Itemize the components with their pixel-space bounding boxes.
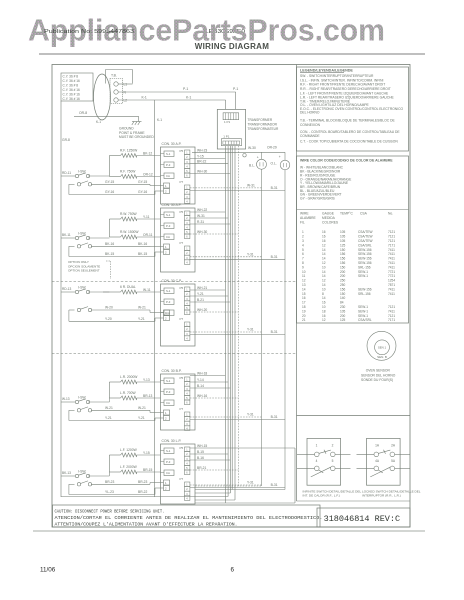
svg-text:12: 12 xyxy=(302,279,306,283)
svg-text:7411: 7411 xyxy=(388,252,395,256)
G1 output wires xyxy=(190,157,226,159)
svg-text:W-20: W-20 xyxy=(105,306,113,310)
svg-text:7411: 7411 xyxy=(388,292,395,296)
svg-text:11/06: 11/06 xyxy=(40,567,56,574)
G3 lamp circuit wires xyxy=(190,331,262,333)
svg-text:Y-21: Y-21 xyxy=(138,416,145,420)
svg-text:SEW-1: SEW-1 xyxy=(358,305,368,309)
svg-text:14: 14 xyxy=(322,270,326,274)
svg-text:7: 7 xyxy=(302,257,304,261)
svg-text:Y-21: Y-21 xyxy=(138,317,145,321)
section divider xyxy=(52,281,297,283)
svg-text:SONDE DU FOUR(S): SONDE DU FOUR(S) xyxy=(361,378,393,382)
svg-text:P-3: P-3 xyxy=(166,224,171,228)
svg-text:W-11: W-11 xyxy=(143,288,151,292)
svg-text:10: 10 xyxy=(302,270,306,274)
svg-text:84: 84 xyxy=(340,301,344,305)
svg-text:SEW-156: SEW-156 xyxy=(358,261,372,265)
svg-text:6 R. DUAL: 6 R. DUAL xyxy=(120,285,136,289)
svg-text:SEW-1: SEW-1 xyxy=(358,270,368,274)
G5 output wires xyxy=(190,447,295,449)
svg-text:7121: 7121 xyxy=(388,235,395,239)
svg-text:105: 105 xyxy=(340,239,346,243)
svg-text:C.Y. 36 # 8: C.Y. 36 # 8 xyxy=(63,84,79,88)
svg-text:GY-16: GY-16 xyxy=(138,190,147,194)
svg-text:18: 18 xyxy=(302,305,306,309)
svg-text:+: + xyxy=(279,155,281,159)
svg-text:105: 105 xyxy=(340,309,346,313)
G2 aux pins xyxy=(164,244,170,249)
left feed bus xyxy=(60,101,62,497)
svg-text:7121: 7121 xyxy=(388,230,395,234)
svg-text:CA: CA xyxy=(166,235,170,239)
svg-text:SEW-156: SEW-156 xyxy=(358,248,372,252)
svg-text:S-1: S-1 xyxy=(166,152,171,156)
svg-text:SEW-1: SEW-1 xyxy=(358,314,368,318)
svg-text:P5: P5 xyxy=(180,286,184,290)
svg-text:R.W. 1500W: R.W. 1500W xyxy=(120,230,139,234)
svg-text:BK-12: BK-12 xyxy=(143,151,152,155)
svg-text:B-14: B-14 xyxy=(197,384,204,388)
svg-text:1 P1: 1 P1 xyxy=(223,134,230,138)
wire L1 loop xyxy=(105,70,107,84)
G4 left pins xyxy=(164,378,174,384)
svg-text:S-1: S-1 xyxy=(166,449,171,453)
svg-text:W-13: W-13 xyxy=(62,397,70,401)
G2 lamp circuit wires xyxy=(190,256,262,258)
svg-text:200: 200 xyxy=(340,314,346,318)
terminal N xyxy=(114,90,118,94)
legend box xyxy=(297,67,409,151)
G5 lamp circuit wires xyxy=(190,484,262,486)
section divider 2 xyxy=(52,353,297,355)
table divider xyxy=(297,209,409,211)
svg-text:K-1: K-1 xyxy=(186,95,191,99)
element feed wire xyxy=(108,455,110,472)
svg-text:R.F. 1250W: R.F. 1250W xyxy=(120,148,138,152)
svg-text:WH-23: WH-23 xyxy=(197,148,207,152)
svg-text:INT. DE CALOR (R.F., L.F.): INT. DE CALOR (R.F., L.F.) xyxy=(303,494,340,498)
lamp wire xyxy=(192,151,285,153)
svg-text:16: 16 xyxy=(322,314,326,318)
svg-text:OR-8: OR-8 xyxy=(79,111,87,115)
svg-text:L.R. 700W: L.R. 700W xyxy=(120,391,136,395)
svg-text:OPTION SEULEMENT: OPTION SEULEMENT xyxy=(68,269,100,273)
svg-text:LEGEND/LEYENDA/LEGENDE: LEGEND/LEYENDA/LEGENDE xyxy=(300,69,353,73)
sheet border xyxy=(52,65,410,528)
svg-text:Y-11: Y-11 xyxy=(143,215,150,219)
G3 aux pins xyxy=(164,310,170,315)
svg-text:WIRING DIAGRAM: WIRING DIAGRAM xyxy=(195,42,269,51)
svg-text:WH-18: WH-18 xyxy=(197,372,207,376)
svg-text:OR-12: OR-12 xyxy=(143,172,153,176)
svg-text:200: 200 xyxy=(340,274,346,278)
switch feed wires xyxy=(61,237,75,239)
svg-text:L2: L2 xyxy=(124,99,128,103)
svg-text:150: 150 xyxy=(340,248,346,252)
svg-text:R-31: R-31 xyxy=(197,220,204,224)
G1 lamp circuit wires xyxy=(190,187,262,189)
wire spec box xyxy=(61,73,93,101)
dashed bus wire xyxy=(237,146,239,486)
svg-text:11: 11 xyxy=(302,274,306,278)
ground wire xyxy=(74,115,139,117)
svg-text:BR-21: BR-21 xyxy=(197,466,207,470)
svg-text:P7: P7 xyxy=(180,241,184,245)
svg-text:16: 16 xyxy=(302,296,306,300)
svg-text:Y-31: Y-31 xyxy=(247,481,254,485)
svg-text:BR-13: BR-13 xyxy=(143,394,153,398)
infinite switch I-SW xyxy=(75,286,91,312)
svg-text:TRANSFORMADOR: TRANSFORMADOR xyxy=(248,123,278,127)
svg-text:BR-23: BR-23 xyxy=(138,480,148,484)
svg-text:1: 1 xyxy=(302,230,304,234)
infinite switch I-SW xyxy=(75,470,91,486)
svg-text:CSA: CSA xyxy=(360,212,368,216)
EOC bus wires xyxy=(224,146,226,503)
svg-text:150: 150 xyxy=(340,292,346,296)
svg-text:14: 14 xyxy=(322,248,326,252)
svg-text:GY-15: GY-15 xyxy=(105,180,114,184)
svg-text:BK-15: BK-15 xyxy=(138,252,147,256)
svg-text:WIRE: WIRE xyxy=(300,212,309,216)
svg-text:+: + xyxy=(257,156,259,160)
svg-text:6: 6 xyxy=(302,252,304,256)
svg-text:8: 8 xyxy=(302,261,304,265)
svg-text:Y-31: Y-31 xyxy=(247,328,254,332)
svg-text:SEW-156: SEW-156 xyxy=(358,257,372,261)
svg-text:105: 105 xyxy=(340,230,346,234)
svg-text:B-31: B-31 xyxy=(271,255,278,259)
svg-text:SRL-156: SRL-156 xyxy=(358,265,371,269)
G5 left pins xyxy=(164,448,174,454)
svg-text:K-1: K-1 xyxy=(142,95,147,99)
svg-text:7411: 7411 xyxy=(388,265,395,269)
svg-text:INTERRUPTOR (R.R., L.R.): INTERRUPTOR (R.R., L.R.) xyxy=(362,494,401,498)
svg-text:20: 20 xyxy=(302,314,306,318)
svg-text:8: 8 xyxy=(322,292,324,296)
footer rule xyxy=(33,530,425,532)
lamp 2 O.L. xyxy=(284,152,286,160)
svg-text:L.F. 1200W: L.F. 1200W xyxy=(120,448,138,452)
svg-text:SRL-156: SRL-156 xyxy=(358,292,371,296)
svg-text:BR-15: BR-15 xyxy=(143,468,153,472)
svg-text:I-SW: I-SW xyxy=(78,170,86,174)
G1 left pins xyxy=(164,151,174,157)
svg-text:1 P1: 1 P1 xyxy=(224,120,231,124)
svg-text:BR-22: BR-22 xyxy=(138,490,148,494)
svg-text:B-31: B-31 xyxy=(271,415,278,419)
svg-text:P5: P5 xyxy=(180,446,184,450)
svg-text:CA: CA xyxy=(166,471,170,475)
svg-text:L.R. 2000W: L.R. 2000W xyxy=(120,375,138,379)
svg-text:C.Y. 36 # 16: C.Y. 36 # 16 xyxy=(63,97,81,101)
svg-text:2: 2 xyxy=(332,444,334,448)
svg-text:BR-23: BR-23 xyxy=(105,480,115,484)
wire along panel edge xyxy=(294,448,296,503)
svg-text:P-3: P-3 xyxy=(166,300,171,304)
G4 output wires xyxy=(190,375,226,377)
G5 aux pins xyxy=(164,480,170,485)
infinite switch I-SW xyxy=(75,232,91,249)
svg-text:R.F. 750W: R.F. 750W xyxy=(120,169,136,173)
svg-text:250: 250 xyxy=(340,279,346,283)
svg-text:T.B.: T.B. xyxy=(111,74,117,78)
svg-text:WIRE COLOR CODE/CODIGO DE COLO: WIRE COLOR CODE/CODIGO DE COLOR DE ALAMB… xyxy=(300,159,393,163)
svg-text:Y-21: Y-21 xyxy=(197,292,204,296)
svg-text:CON. 30 A.P.: CON. 30 A.P. xyxy=(162,203,182,207)
svg-text:7411: 7411 xyxy=(388,248,395,252)
svg-text:BK-16: BK-16 xyxy=(105,242,114,246)
svg-text:I-SW: I-SW xyxy=(78,396,86,400)
svg-text:OVEN SENSOR: OVEN SENSOR xyxy=(366,369,391,373)
svg-text:L.F. 2000W: L.F. 2000W xyxy=(120,465,138,469)
svg-text:OR-11: OR-11 xyxy=(143,233,153,237)
wire N to bus P-1 xyxy=(118,91,236,93)
lower panel divider xyxy=(297,415,411,417)
bottom bus runs xyxy=(195,485,262,487)
svg-text:7121: 7121 xyxy=(388,305,395,309)
svg-text:WH-15: WH-15 xyxy=(197,444,207,448)
svg-text:WH-30: WH-30 xyxy=(197,169,207,173)
svg-text:OR-29: OR-29 xyxy=(267,146,277,150)
svg-text:RD-11: RD-11 xyxy=(62,171,71,175)
svg-text:Y-15: Y-15 xyxy=(143,451,150,455)
svg-text:Y-31: Y-31 xyxy=(247,252,254,256)
svg-text:SEN 1: SEN 1 xyxy=(378,346,387,350)
EOC top connector J1 xyxy=(223,113,239,120)
svg-text:7171: 7171 xyxy=(388,318,395,322)
svg-text:14: 14 xyxy=(322,283,326,287)
caution box xyxy=(53,505,321,527)
element feed wire xyxy=(108,219,110,237)
ground symbol xyxy=(138,116,140,121)
infinite switch I-SW xyxy=(75,396,91,412)
switch feed wires xyxy=(61,291,75,293)
svg-text:W-31: W-31 xyxy=(247,183,255,187)
svg-text:7121: 7121 xyxy=(388,239,395,243)
infinite switch I-SW xyxy=(75,170,91,187)
switch feed wires xyxy=(61,401,75,403)
svg-text:6: 6 xyxy=(231,567,235,574)
terminal L2 xyxy=(114,98,118,102)
svg-text:B-16: B-16 xyxy=(197,456,204,460)
svg-text:Y-21: Y-21 xyxy=(105,416,112,420)
svg-text:CA: CA xyxy=(166,174,170,178)
svg-text:12: 12 xyxy=(322,279,326,283)
svg-text:16: 16 xyxy=(322,235,326,239)
svg-text:P7: P7 xyxy=(180,317,184,321)
svg-text:S-1: S-1 xyxy=(166,213,171,217)
svg-text:R.W. 750W: R.W. 750W xyxy=(120,212,138,216)
G4 lamp circuit wires xyxy=(190,416,262,418)
svg-text:W-30: W-30 xyxy=(248,146,256,150)
svg-text:B-31: B-31 xyxy=(271,186,278,190)
svg-text:Y-15: Y-15 xyxy=(197,154,204,158)
svg-text:7121: 7121 xyxy=(388,314,395,318)
svg-text:MUST BE GROUNDED: MUST BE GROUNDED xyxy=(119,135,154,139)
svg-text:BR-22: BR-22 xyxy=(197,160,207,164)
svg-text:CAUTION: DISCONNECT POWER BEFO: CAUTION: DISCONNECT POWER BEFORE SERVICI… xyxy=(55,509,165,515)
svg-text:R.F. - RIGHT FRONT/FRENTE DE: R.F. - RIGHT FRONT/FRENTE DERECHO/AVANT … xyxy=(300,83,385,87)
svg-text:7721: 7721 xyxy=(388,274,395,278)
svg-text:1254: 1254 xyxy=(388,279,395,283)
svg-text:P-3: P-3 xyxy=(166,163,171,167)
svg-text:WH-21: WH-21 xyxy=(197,286,207,290)
svg-text:CSA/TEW: CSA/TEW xyxy=(358,230,373,234)
wire stub to EOC pin xyxy=(225,100,227,109)
oven sensor RTD xyxy=(367,331,396,360)
svg-text:B-15: B-15 xyxy=(197,450,204,454)
svg-text:P7: P7 xyxy=(180,407,184,411)
svg-text:WH-16: WH-16 xyxy=(197,394,207,398)
switch feed wires xyxy=(61,475,75,477)
svg-text:P5: P5 xyxy=(180,210,184,214)
svg-text:140: 140 xyxy=(340,296,346,300)
oven lamp B.L. xyxy=(261,152,263,159)
svg-text:12: 12 xyxy=(322,261,326,265)
svg-text:Y-20: Y-20 xyxy=(105,317,112,321)
svg-text:5: 5 xyxy=(332,459,334,463)
svg-text:3: 3 xyxy=(302,239,304,243)
svg-text:P-1: P-1 xyxy=(233,87,238,91)
svg-text:16: 16 xyxy=(322,230,326,234)
svg-text:K-1: K-1 xyxy=(157,118,162,122)
svg-text:R.R. - RIGHT REAR/TRASERO DE: R.R. - RIGHT REAR/TRASERO DERECHO/ARRIER… xyxy=(300,87,391,91)
svg-text:4: 4 xyxy=(302,243,304,247)
switch feed wires xyxy=(61,175,75,177)
svg-text:P-1: P-1 xyxy=(183,87,188,91)
svg-text:C.Y. 36 # 16: C.Y. 36 # 16 xyxy=(63,88,81,92)
svg-text:W-21: W-21 xyxy=(105,406,113,410)
svg-text:WH-22: WH-22 xyxy=(197,208,207,212)
svg-text:105: 105 xyxy=(340,235,346,239)
svg-text:SEW-156: SEW-156 xyxy=(358,252,372,256)
svg-text:150: 150 xyxy=(340,265,346,269)
svg-text:14: 14 xyxy=(322,274,326,278)
svg-text:10: 10 xyxy=(322,265,326,269)
svg-text:7411: 7411 xyxy=(388,257,395,261)
svg-text:10: 10 xyxy=(322,287,326,291)
svg-text:SENSOR DEL HORNO: SENSOR DEL HORNO xyxy=(361,373,396,377)
svg-text:5: 5 xyxy=(302,248,304,252)
G1 aux pins xyxy=(164,183,170,188)
svg-text:No.: No. xyxy=(388,212,393,216)
svg-text:156: 156 xyxy=(340,261,346,265)
svg-text:BK-11: BK-11 xyxy=(62,233,71,237)
svg-text:19: 19 xyxy=(302,309,306,313)
svg-text:P5: P5 xyxy=(180,376,184,380)
G3 left pins xyxy=(164,288,174,294)
svg-text:P7: P7 xyxy=(180,477,184,481)
svg-text:14: 14 xyxy=(322,252,326,256)
svg-text:13: 13 xyxy=(302,283,306,287)
svg-text:156: 156 xyxy=(340,257,346,261)
svg-text:C.T. - COOK TOP/CUBIERTA DE CO: C.T. - COOK TOP/CUBIERTA DE COCCION/TABL… xyxy=(300,140,398,144)
svg-text:BK-16: BK-16 xyxy=(138,242,147,246)
svg-text:1: 1 xyxy=(316,444,318,448)
svg-text:16: 16 xyxy=(322,239,326,243)
G2 output wires xyxy=(190,211,226,213)
svg-text:GR-8: GR-8 xyxy=(62,138,70,142)
svg-text:SEN. B: SEN. B xyxy=(377,355,387,359)
svg-text:W-31: W-31 xyxy=(197,214,205,218)
svg-text:WH-30: WH-30 xyxy=(197,230,207,234)
svg-text:CSA/TEW: CSA/TEW xyxy=(358,239,373,243)
svg-text:17: 17 xyxy=(302,301,306,305)
svg-text:GY-15: GY-15 xyxy=(138,180,147,184)
panel divider xyxy=(296,65,298,502)
svg-text:K-1: K-1 xyxy=(96,120,101,124)
svg-text:DEL HORNO: DEL HORNO xyxy=(300,110,320,114)
svg-text:230: 230 xyxy=(340,305,346,309)
EOC electronic oven control U1 xyxy=(217,109,245,149)
header rule xyxy=(39,53,425,55)
svg-text:18: 18 xyxy=(322,309,326,313)
svg-text:B-31: B-31 xyxy=(271,483,278,487)
svg-text:CON. 30 L.P.: CON. 30 L.P. xyxy=(162,439,182,443)
svg-text:S-1: S-1 xyxy=(166,289,171,293)
wire color code box xyxy=(297,156,409,323)
svg-text:TRANSFORMATEUR: TRANSFORMATEUR xyxy=(248,127,279,131)
svg-text:GY-16: GY-16 xyxy=(105,190,114,194)
svg-text:12: 12 xyxy=(322,318,326,322)
svg-text:O.L.: O.L. xyxy=(271,162,277,166)
svg-text:Publication No: 5995447863: Publication No: 5995447863 xyxy=(44,29,134,35)
svg-text:Y-14: Y-14 xyxy=(197,378,204,382)
svg-text:RD-13: RD-13 xyxy=(62,287,71,291)
svg-text:250: 250 xyxy=(340,283,346,287)
ground circle G xyxy=(243,154,246,157)
lamp drops xyxy=(261,169,263,486)
svg-text:I-SW: I-SW xyxy=(78,470,86,474)
svg-text:CON. 30 B.P.: CON. 30 B.P. xyxy=(162,369,182,373)
svg-text:I-SW: I-SW xyxy=(78,286,86,290)
svg-text:21: 21 xyxy=(302,318,306,322)
svg-text:SEW-1: SEW-1 xyxy=(358,274,368,278)
svg-text:COLORES: COLORES xyxy=(322,221,339,225)
svg-text:P-3: P-3 xyxy=(166,460,171,464)
switch detail figure at 366.5 xyxy=(367,438,401,485)
svg-text:Y-13: Y-13 xyxy=(143,378,150,382)
svg-text:125: 125 xyxy=(340,243,346,247)
svg-text:125: 125 xyxy=(340,318,346,322)
G3 output wires xyxy=(190,289,226,291)
svg-text:GY - GRAY/GRIS/GRIS: GY - GRAY/GRIS/GRIS xyxy=(300,197,335,201)
svg-text:200: 200 xyxy=(340,270,346,274)
svg-text:7411: 7411 xyxy=(388,287,395,291)
svg-text:CSA/SRL: CSA/SRL xyxy=(358,318,372,322)
switch panel bottom xyxy=(297,500,411,502)
svg-text:16: 16 xyxy=(322,301,326,305)
svg-text:14: 14 xyxy=(322,257,326,261)
svg-text:14: 14 xyxy=(322,296,326,300)
svg-text:B-31: B-31 xyxy=(271,330,278,334)
svg-text:FIL: FIL xyxy=(300,221,305,225)
svg-text:I-SW: I-SW xyxy=(78,232,86,236)
svg-text:2: 2 xyxy=(302,235,304,239)
svg-text:CSA/TEW: CSA/TEW xyxy=(358,235,373,239)
svg-text:B-21: B-21 xyxy=(197,298,204,302)
svg-text:WH-20: WH-20 xyxy=(197,308,207,312)
svg-text:P-3: P-3 xyxy=(166,390,171,394)
svg-text:MEDIDA: MEDIDA xyxy=(322,216,336,220)
svg-text:S-1: S-1 xyxy=(166,379,171,383)
element feed wire xyxy=(108,382,110,398)
svg-text:ATTENTION/COUPEZ L'ALIMENTATIO: ATTENTION/COUPEZ L'ALIMENTATION AVANT D'… xyxy=(55,522,238,528)
svg-text:318046814 REV:C: 318046814 REV:C xyxy=(324,514,401,524)
svg-text:P7: P7 xyxy=(180,180,184,184)
